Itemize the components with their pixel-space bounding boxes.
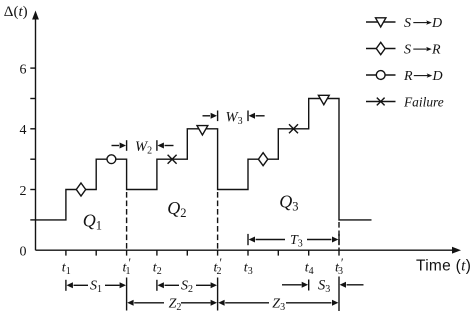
annotation Z3: [218, 277, 339, 312]
legend entry S->D: [366, 16, 442, 31]
x tick label t4: [305, 261, 314, 278]
svg-text:S2: S2: [181, 279, 193, 296]
svg-text:R: R: [431, 43, 441, 58]
annotation S2: [157, 278, 218, 311]
legend entry R->D: [366, 69, 443, 84]
y tick label 4: [20, 123, 27, 138]
step function curve: [36, 99, 372, 220]
legend entry Failure: [366, 95, 444, 110]
marker triangle S->D at (323.8,98.5): [318, 95, 329, 104]
annotation T3: [248, 234, 339, 245]
svg-text:S: S: [404, 43, 411, 58]
axis title Time (t): [416, 258, 471, 275]
label S2: [181, 279, 193, 296]
svg-text:t′2: t′2: [214, 256, 222, 277]
svg-text:t′3: t′3: [335, 256, 343, 277]
svg-text:W3: W3: [226, 109, 243, 127]
label T3: [290, 233, 303, 250]
marker triangle S->D at (202.4,128.8): [197, 126, 208, 135]
svg-text:4: 4: [20, 123, 27, 138]
x tick label t3': [335, 256, 343, 277]
svg-text:S: S: [404, 16, 411, 31]
svg-text:6: 6: [20, 62, 27, 77]
svg-text:S3: S3: [318, 278, 330, 296]
dashed line at t2': [217, 192, 219, 250]
label W3: [226, 109, 243, 127]
y tick label 0: [20, 245, 27, 260]
svg-text:D: D: [432, 69, 443, 84]
marker diamond S->R at (81,189.5): [76, 183, 85, 196]
label Z3: [272, 296, 285, 313]
label Q3: [279, 192, 298, 214]
y-axis ticks: [30, 68, 35, 220]
axis title Delta(t): [4, 4, 28, 20]
label S3: [318, 278, 330, 296]
dashed line at t1': [126, 192, 128, 250]
svg-text:R: R: [403, 69, 413, 84]
y-axis: [32, 11, 39, 251]
svg-text:t2: t2: [153, 261, 162, 278]
dashed line at t3': [338, 222, 340, 250]
marker circle R->D at (111.4,159.2): [107, 155, 116, 164]
marker x Failure at (172.1,159.2): [168, 155, 177, 164]
svg-text:S1: S1: [90, 279, 102, 296]
svg-text:Q1: Q1: [83, 211, 102, 233]
svg-text:t3: t3: [244, 261, 253, 278]
svg-text:t1: t1: [62, 261, 71, 278]
marker diamond S->R at (263.1,159.2): [258, 153, 267, 166]
label S1: [90, 279, 102, 296]
svg-text:t4: t4: [305, 261, 314, 278]
label W2: [135, 139, 152, 157]
svg-text:2: 2: [20, 184, 27, 199]
svg-text:W2: W2: [135, 139, 152, 157]
x tick label t2: [153, 261, 162, 278]
svg-text:Z3: Z3: [272, 296, 285, 313]
marker x Failure at (293.5,128.8): [289, 124, 298, 133]
x tick label t3: [244, 261, 253, 278]
svg-text:Q3: Q3: [279, 192, 298, 214]
svg-text:t′1: t′1: [123, 256, 131, 277]
legend entry S->R: [366, 42, 441, 57]
x tick label t2': [214, 256, 222, 277]
x-axis: [36, 247, 462, 254]
annotation Z2: [127, 300, 217, 306]
label Q2: [167, 198, 186, 220]
svg-text:0: 0: [20, 245, 27, 260]
svg-text:D: D: [431, 16, 442, 31]
annotation S1: [66, 278, 127, 311]
x tick label t1': [123, 256, 131, 277]
svg-text:Z2: Z2: [169, 296, 182, 313]
svg-text:Time (t): Time (t): [416, 258, 471, 275]
svg-text:T3: T3: [290, 233, 303, 250]
svg-text:Δ(t): Δ(t): [4, 4, 28, 20]
annotation W3 arrows: [203, 111, 265, 122]
svg-text:Q2: Q2: [167, 198, 186, 220]
x tick label t1: [62, 261, 71, 278]
annotation S3: [282, 280, 364, 291]
svg-text:Failure: Failure: [403, 95, 444, 110]
label Z2: [169, 296, 182, 313]
annotation W2 arrows: [112, 140, 174, 151]
label Q1: [83, 211, 102, 233]
y tick label 2: [20, 184, 27, 199]
y tick label 6: [20, 62, 27, 77]
x-axis ticks: [66, 250, 339, 255]
